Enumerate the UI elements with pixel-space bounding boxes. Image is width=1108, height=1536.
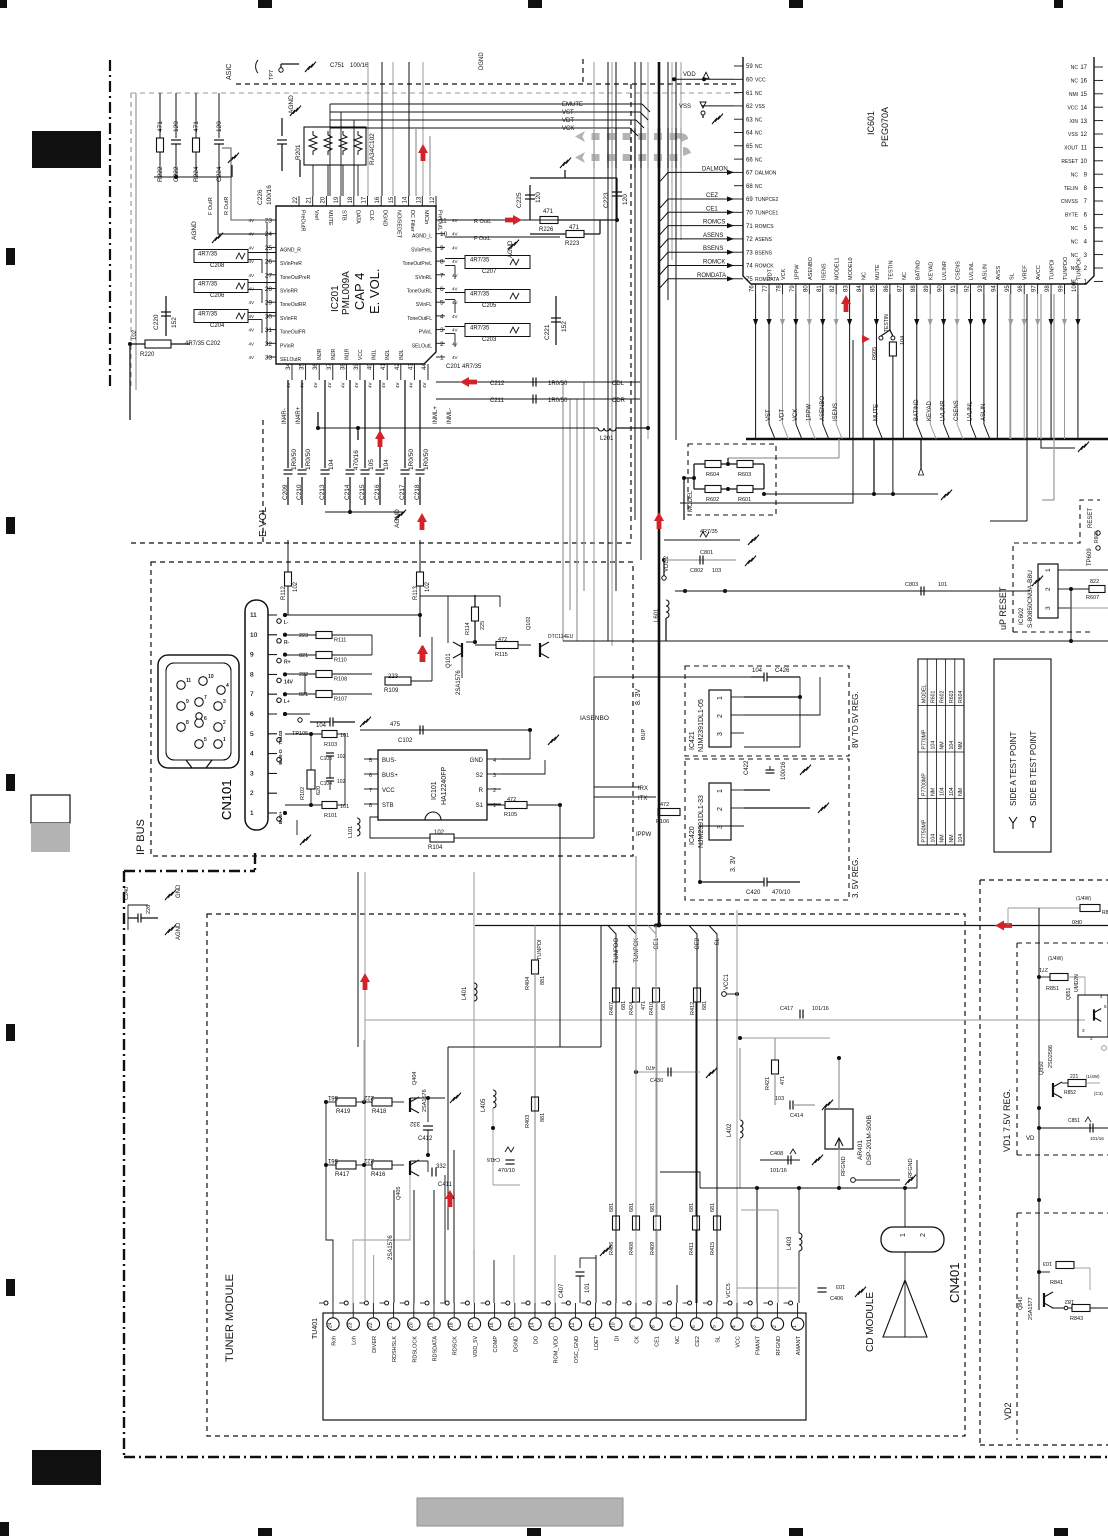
svg-text:7: 7 bbox=[204, 695, 207, 701]
svg-text:ROM_VDD: ROM_VDD bbox=[554, 1336, 560, 1364]
svg-text:63: 63 bbox=[746, 117, 753, 123]
svg-text:24: 24 bbox=[328, 1322, 334, 1328]
svg-text:561: 561 bbox=[327, 1094, 338, 1100]
svg-text:4V: 4V bbox=[248, 328, 254, 333]
svg-text:NC: NC bbox=[755, 64, 763, 70]
svg-text:LVLINR: LVLINR bbox=[942, 261, 948, 280]
svg-text:NOISEDET: NOISEDET bbox=[395, 210, 401, 239]
svg-text:4V: 4V bbox=[452, 314, 458, 319]
svg-text:R224: R224 bbox=[193, 166, 200, 182]
svg-text:LVLINL: LVLINL bbox=[967, 401, 973, 421]
svg-text:ASLIN: ASLIN bbox=[981, 404, 987, 421]
svg-text:ROMCS: ROMCS bbox=[703, 220, 725, 226]
svg-text:21: 21 bbox=[388, 1322, 394, 1328]
svg-text:2: 2 bbox=[250, 790, 254, 797]
svg-text:IN2L: IN2L bbox=[385, 349, 391, 360]
svg-text:DTC114EU: DTC114EU bbox=[548, 634, 574, 640]
svg-text:DIVER: DIVER bbox=[372, 1336, 378, 1353]
svg-text:120: 120 bbox=[173, 121, 180, 132]
svg-text:ASLIN: ASLIN bbox=[982, 264, 988, 280]
svg-text:38: 38 bbox=[340, 363, 346, 370]
svg-text:332: 332 bbox=[409, 1120, 420, 1126]
svg-text:DGND: DGND bbox=[382, 210, 388, 226]
svg-text:(1/4W): (1/4W) bbox=[1076, 896, 1091, 902]
svg-text:NC: NC bbox=[755, 131, 763, 137]
svg-text:21: 21 bbox=[307, 196, 313, 203]
svg-text:821: 821 bbox=[299, 692, 308, 698]
svg-text:10: 10 bbox=[250, 632, 258, 639]
svg-text:SVinRR: SVinRR bbox=[280, 289, 298, 295]
svg-text:C215: C215 bbox=[359, 484, 366, 500]
svg-text:8: 8 bbox=[250, 671, 254, 678]
svg-text:MODEL: MODEL bbox=[921, 684, 927, 703]
svg-text:CE1: CE1 bbox=[655, 1336, 661, 1347]
svg-text:C216: C216 bbox=[374, 484, 381, 500]
svg-text:ToneOutRL: ToneOutRL bbox=[407, 289, 433, 295]
svg-text:19: 19 bbox=[334, 196, 340, 203]
svg-text:104: 104 bbox=[949, 787, 955, 796]
svg-text:6: 6 bbox=[691, 1325, 697, 1328]
svg-text:35: 35 bbox=[300, 363, 306, 370]
svg-text:R605: R605 bbox=[872, 347, 878, 360]
svg-text:60: 60 bbox=[746, 78, 753, 84]
svg-text:14V: 14V bbox=[284, 679, 294, 685]
svg-text:4V: 4V bbox=[248, 273, 254, 278]
svg-text:LDET: LDET bbox=[594, 1335, 600, 1350]
svg-text:6: 6 bbox=[440, 286, 444, 293]
svg-text:101: 101 bbox=[585, 1282, 591, 1293]
svg-text:VCC: VCC bbox=[755, 78, 766, 84]
svg-text:44: 44 bbox=[422, 363, 428, 370]
svg-text:RDSHSLK: RDSHSLK bbox=[392, 1336, 398, 1362]
svg-text:DO: DO bbox=[534, 1335, 540, 1344]
svg-text:R104: R104 bbox=[428, 845, 443, 851]
svg-text:TP7: TP7 bbox=[269, 70, 275, 80]
svg-text:AGND: AGND bbox=[176, 922, 182, 940]
svg-text:24: 24 bbox=[265, 231, 273, 238]
svg-text:IPPW: IPPW bbox=[636, 832, 652, 838]
svg-text:16: 16 bbox=[1080, 79, 1087, 85]
svg-text:4V: 4V bbox=[452, 287, 458, 292]
svg-text:42: 42 bbox=[395, 363, 401, 370]
svg-text:1: 1 bbox=[440, 355, 444, 362]
svg-text:61: 61 bbox=[746, 91, 753, 97]
svg-text:NC: NC bbox=[1071, 65, 1079, 71]
svg-text:RDSDATA: RDSDATA bbox=[433, 1336, 439, 1362]
svg-text:R608: R608 bbox=[1094, 531, 1100, 543]
svg-text:14: 14 bbox=[1080, 105, 1087, 111]
svg-text:69: 69 bbox=[746, 197, 753, 203]
svg-text:33: 33 bbox=[265, 355, 273, 362]
svg-text:VCK: VCK bbox=[781, 268, 787, 280]
svg-text:101/16: 101/16 bbox=[770, 1168, 787, 1174]
svg-text:C851: C851 bbox=[1068, 1118, 1080, 1124]
svg-text:81: 81 bbox=[817, 285, 823, 292]
svg-text:R201: R201 bbox=[295, 144, 302, 160]
svg-text:TUNPCK: TUNPCK bbox=[634, 938, 640, 963]
svg-text:R418: R418 bbox=[372, 1109, 387, 1115]
svg-text:NM: NM bbox=[958, 788, 964, 796]
svg-text:75: 75 bbox=[746, 277, 753, 283]
svg-text:RA34C102: RA34C102 bbox=[369, 133, 376, 165]
svg-text:STB: STB bbox=[341, 210, 347, 221]
svg-text:R: R bbox=[479, 788, 484, 794]
svg-text:104: 104 bbox=[752, 668, 763, 674]
svg-text:17: 17 bbox=[362, 196, 368, 203]
svg-text:R8: R8 bbox=[1102, 910, 1108, 916]
svg-text:3: 3 bbox=[717, 732, 724, 736]
svg-text:DSP-201M-S00B: DSP-201M-S00B bbox=[866, 1115, 873, 1165]
svg-text:881: 881 bbox=[540, 976, 546, 985]
svg-text:R101: R101 bbox=[324, 813, 337, 819]
svg-text:TUNER MODULE: TUNER MODULE bbox=[224, 1274, 236, 1362]
svg-text:475: 475 bbox=[390, 722, 401, 728]
svg-text:P770MP: P770MP bbox=[921, 729, 927, 749]
svg-text:PVinR: PVinR bbox=[280, 343, 294, 349]
svg-text:223: 223 bbox=[299, 633, 308, 639]
svg-text:7: 7 bbox=[671, 1325, 677, 1328]
svg-text:471: 471 bbox=[193, 121, 200, 132]
svg-text:VCC: VCC bbox=[358, 349, 364, 360]
svg-text:R109: R109 bbox=[384, 688, 399, 694]
svg-text:65: 65 bbox=[746, 144, 753, 150]
svg-text:98: 98 bbox=[1045, 285, 1051, 292]
svg-text:IN4R+: IN4R+ bbox=[296, 406, 302, 424]
svg-text:MODEL: MODEL bbox=[688, 490, 694, 512]
svg-text:20: 20 bbox=[408, 1322, 414, 1328]
svg-text:73: 73 bbox=[746, 250, 753, 256]
svg-text:152: 152 bbox=[561, 321, 568, 332]
svg-text:30: 30 bbox=[265, 313, 273, 320]
svg-text:ToneOutPreR: ToneOutPreR bbox=[280, 275, 311, 281]
svg-text:226: 226 bbox=[146, 905, 152, 914]
svg-text:DGND: DGND bbox=[479, 52, 485, 70]
svg-text:10: 10 bbox=[1080, 159, 1087, 165]
svg-text:104: 104 bbox=[940, 787, 946, 796]
svg-text:RFGND: RFGND bbox=[776, 1336, 782, 1356]
svg-text:3. 3V: 3. 3V bbox=[730, 855, 737, 872]
svg-text:IN4R-: IN4R- bbox=[282, 408, 288, 424]
svg-text:C208: C208 bbox=[210, 263, 225, 269]
svg-text:5: 5 bbox=[440, 300, 444, 307]
svg-text:16: 16 bbox=[375, 196, 381, 203]
svg-text:NC: NC bbox=[1071, 239, 1079, 245]
svg-text:104: 104 bbox=[958, 834, 964, 843]
svg-text:681: 681 bbox=[689, 1203, 695, 1212]
svg-text:1R0/50: 1R0/50 bbox=[291, 449, 298, 470]
svg-text:L101: L101 bbox=[348, 826, 354, 838]
svg-text:4V: 4V bbox=[248, 300, 254, 305]
svg-text:222: 222 bbox=[299, 672, 308, 678]
svg-text:ToneOutPreL: ToneOutPreL bbox=[403, 261, 433, 267]
svg-text:R417: R417 bbox=[335, 1172, 350, 1178]
svg-text:ASENS: ASENS bbox=[755, 237, 773, 243]
svg-text:182: 182 bbox=[1065, 1298, 1074, 1304]
svg-text:IN1L: IN1L bbox=[372, 349, 378, 360]
svg-text:225: 225 bbox=[480, 621, 486, 630]
svg-text:VSS: VSS bbox=[755, 104, 766, 110]
svg-text:100: 100 bbox=[1072, 281, 1078, 292]
svg-text:BUS-O: BUS-O bbox=[278, 749, 284, 764]
svg-text:LVLINR: LVLINR bbox=[941, 400, 947, 421]
svg-text:105: 105 bbox=[368, 459, 375, 470]
svg-text:74: 74 bbox=[746, 264, 753, 270]
svg-text:INML-: INML- bbox=[447, 408, 453, 424]
svg-text:HA12240FP: HA12240FP bbox=[441, 767, 448, 805]
svg-text:77: 77 bbox=[763, 285, 769, 292]
svg-text:R102: R102 bbox=[300, 787, 306, 800]
svg-text:472: 472 bbox=[507, 797, 516, 803]
svg-text:4V: 4V bbox=[381, 382, 386, 388]
svg-text:C205: C205 bbox=[482, 303, 497, 309]
svg-text:C406: C406 bbox=[830, 1296, 843, 1302]
svg-text:5: 5 bbox=[204, 737, 207, 743]
svg-text:1PPW: 1PPW bbox=[794, 264, 800, 280]
svg-text:104: 104 bbox=[931, 741, 937, 750]
svg-text:10: 10 bbox=[610, 1322, 616, 1328]
svg-text:C213: C213 bbox=[319, 484, 326, 500]
svg-text:VCC5: VCC5 bbox=[726, 1283, 732, 1298]
svg-text:VST: VST bbox=[766, 409, 772, 421]
svg-text:RESET: RESET bbox=[1088, 508, 1094, 528]
svg-text:RFGND: RFGND bbox=[908, 1158, 914, 1178]
svg-text:CE2: CE2 bbox=[695, 1336, 701, 1347]
svg-text:18: 18 bbox=[348, 196, 354, 203]
svg-text:22: 22 bbox=[368, 1322, 374, 1328]
svg-text:TUNPCK: TUNPCK bbox=[1076, 257, 1082, 280]
svg-text:IP BUS: IP BUS bbox=[135, 819, 147, 855]
svg-text:102: 102 bbox=[337, 779, 346, 785]
svg-text:COMP: COMP bbox=[493, 1336, 499, 1353]
svg-text:IN3R: IN3R bbox=[317, 348, 323, 360]
svg-text:F OutR: F OutR bbox=[208, 197, 214, 215]
svg-text:TP103: TP103 bbox=[278, 730, 284, 744]
svg-text:DALMON: DALMON bbox=[702, 166, 728, 172]
svg-text:40: 40 bbox=[368, 363, 374, 370]
svg-text:R404: R404 bbox=[525, 977, 531, 990]
svg-text:C207: C207 bbox=[482, 269, 497, 275]
svg-text:S-80850CNUA-B8U: S-80850CNUA-B8U bbox=[1027, 570, 1034, 628]
svg-text:R409: R409 bbox=[650, 1242, 656, 1255]
svg-text:BSENS: BSENS bbox=[703, 246, 723, 252]
svg-text:221: 221 bbox=[1070, 1074, 1079, 1080]
svg-text:C102: C102 bbox=[398, 738, 413, 744]
svg-text:R607: R607 bbox=[1086, 595, 1099, 601]
svg-text:R106: R106 bbox=[656, 819, 669, 825]
svg-text:Rch: Rch bbox=[332, 1336, 338, 1346]
svg-text:3: 3 bbox=[250, 770, 254, 777]
svg-text:72: 72 bbox=[746, 237, 753, 243]
svg-text:SL: SL bbox=[715, 1336, 721, 1343]
svg-text:68: 68 bbox=[746, 184, 753, 190]
svg-text:BUS+: BUS+ bbox=[382, 773, 398, 779]
svg-text:GND: GND bbox=[470, 758, 484, 764]
svg-text:P7700MP: P7700MP bbox=[921, 773, 927, 796]
svg-text:TUNPDI: TUNPDI bbox=[1050, 259, 1056, 280]
svg-text:AGND: AGND bbox=[191, 221, 198, 240]
svg-text:C206: C206 bbox=[210, 293, 225, 299]
svg-text:13: 13 bbox=[550, 1322, 556, 1328]
svg-text:472: 472 bbox=[660, 802, 669, 808]
svg-text:C203: C203 bbox=[482, 337, 497, 343]
svg-text:L401: L401 bbox=[462, 986, 468, 1000]
svg-text:PML009A: PML009A bbox=[341, 271, 352, 315]
svg-text:R419: R419 bbox=[336, 1109, 351, 1115]
svg-text:1R0/50: 1R0/50 bbox=[423, 449, 430, 470]
svg-text:1: 1 bbox=[900, 1233, 907, 1237]
svg-text:104: 104 bbox=[316, 723, 327, 729]
svg-text:L-: L- bbox=[284, 620, 289, 626]
svg-text:32: 32 bbox=[265, 341, 273, 348]
svg-text:26: 26 bbox=[265, 259, 273, 266]
svg-text:DC Filter: DC Filter bbox=[409, 210, 415, 232]
svg-text:S2: S2 bbox=[476, 773, 484, 779]
svg-text:VST: VST bbox=[562, 110, 574, 116]
svg-text:NC: NC bbox=[755, 157, 763, 163]
svg-text:223: 223 bbox=[388, 674, 399, 680]
svg-text:23: 23 bbox=[348, 1322, 354, 1328]
svg-text:101: 101 bbox=[938, 582, 947, 588]
svg-text:C240: C240 bbox=[124, 887, 130, 900]
svg-text:L405: L405 bbox=[481, 1098, 487, 1112]
svg-text:DALMON: DALMON bbox=[755, 171, 777, 177]
svg-text:2: 2 bbox=[920, 1233, 927, 1237]
svg-text:NM: NM bbox=[940, 834, 946, 842]
svg-text:R410: R410 bbox=[649, 1002, 655, 1015]
svg-text:471: 471 bbox=[641, 1001, 647, 1010]
svg-text:8: 8 bbox=[186, 720, 189, 726]
svg-text:BATIND: BATIND bbox=[914, 399, 920, 421]
svg-text:R105: R105 bbox=[504, 812, 517, 818]
svg-text:C225: C225 bbox=[516, 192, 523, 208]
svg-text:23: 23 bbox=[265, 218, 273, 225]
svg-text:470: 470 bbox=[646, 1064, 655, 1070]
svg-text:MUTE: MUTE bbox=[327, 210, 333, 226]
svg-text:VCC1: VCC1 bbox=[724, 973, 730, 990]
svg-text:3. 5V REG.: 3. 5V REG. bbox=[851, 858, 860, 898]
svg-text:R226: R226 bbox=[539, 227, 554, 233]
svg-text:4: 4 bbox=[226, 683, 229, 689]
svg-text:29: 29 bbox=[265, 300, 273, 307]
svg-text:120: 120 bbox=[622, 194, 629, 205]
svg-text:ISENS: ISENS bbox=[833, 403, 839, 421]
svg-text:MUTE: MUTE bbox=[873, 404, 879, 421]
svg-text:102: 102 bbox=[425, 581, 431, 592]
svg-text:27: 27 bbox=[265, 272, 273, 279]
svg-text:470/10: 470/10 bbox=[498, 1168, 515, 1174]
svg-text:R408: R408 bbox=[629, 1242, 635, 1255]
svg-text:4V: 4V bbox=[248, 314, 254, 319]
svg-text:4: 4 bbox=[732, 1325, 738, 1328]
svg-text:Q404: Q404 bbox=[412, 1072, 418, 1085]
svg-text:470/10: 470/10 bbox=[772, 890, 791, 896]
svg-text:89: 89 bbox=[924, 285, 930, 292]
svg-text:ToneOutRR: ToneOutRR bbox=[280, 302, 307, 308]
svg-text:1R0/50: 1R0/50 bbox=[305, 449, 312, 470]
svg-text:100/16: 100/16 bbox=[781, 761, 787, 780]
svg-text:NM: NM bbox=[949, 834, 955, 842]
svg-text:152: 152 bbox=[171, 317, 178, 328]
svg-text:Q405: Q405 bbox=[396, 1187, 402, 1200]
svg-text:CSENS: CSENS bbox=[954, 400, 960, 421]
svg-text:80: 80 bbox=[803, 285, 809, 292]
svg-text:VCC: VCC bbox=[1067, 105, 1078, 111]
svg-text:4V: 4V bbox=[248, 355, 254, 360]
svg-text:R602: R602 bbox=[940, 690, 946, 703]
svg-text:C212: C212 bbox=[490, 381, 505, 387]
svg-text:SIDE B TEST POINT: SIDE B TEST POINT bbox=[1029, 731, 1038, 806]
svg-text:471: 471 bbox=[780, 1076, 786, 1085]
svg-text:15: 15 bbox=[389, 196, 395, 203]
svg-text:10: 10 bbox=[208, 674, 214, 680]
svg-text:RDSCK: RDSCK bbox=[453, 1336, 459, 1356]
svg-text:R852: R852 bbox=[1064, 1090, 1076, 1096]
svg-text:MODEL0: MODEL0 bbox=[848, 257, 854, 280]
svg-text:100/16: 100/16 bbox=[266, 185, 273, 205]
svg-text:78: 78 bbox=[776, 285, 782, 292]
svg-text:2SD2586: 2SD2586 bbox=[1048, 1045, 1054, 1068]
svg-text:4V: 4V bbox=[408, 382, 413, 388]
svg-text:14: 14 bbox=[403, 196, 409, 203]
svg-text:BATIND: BATIND bbox=[915, 260, 921, 280]
svg-text:C211: C211 bbox=[490, 398, 505, 404]
svg-text:4V: 4V bbox=[354, 382, 359, 388]
svg-text:PVinL: PVinL bbox=[419, 330, 432, 336]
svg-text:NC: NC bbox=[1071, 172, 1079, 178]
svg-text:C220: C220 bbox=[153, 314, 160, 330]
svg-text:R424: R424 bbox=[629, 1002, 635, 1015]
svg-text:4V: 4V bbox=[340, 382, 345, 388]
svg-text:18: 18 bbox=[449, 1322, 455, 1328]
svg-text:AMANT: AMANT bbox=[796, 1335, 802, 1355]
svg-text:DGND: DGND bbox=[513, 1336, 519, 1352]
svg-text:67: 67 bbox=[746, 171, 753, 177]
svg-text:IN3L: IN3L bbox=[399, 349, 405, 360]
svg-text:MODEL1: MODEL1 bbox=[835, 257, 841, 280]
svg-text:34: 34 bbox=[286, 363, 292, 370]
svg-text:4R7/35: 4R7/35 bbox=[198, 282, 218, 288]
svg-text:104: 104 bbox=[328, 459, 335, 470]
svg-text:8. 3V: 8. 3V bbox=[635, 688, 642, 705]
svg-text:1: 1 bbox=[717, 789, 724, 793]
svg-text:CE1: CE1 bbox=[654, 937, 660, 949]
svg-text:37: 37 bbox=[327, 363, 333, 370]
svg-text:92: 92 bbox=[964, 285, 970, 292]
svg-text:SVinFL: SVinFL bbox=[416, 302, 433, 308]
svg-text:2: 2 bbox=[223, 720, 226, 726]
svg-text:CAP 4: CAP 4 bbox=[352, 273, 367, 310]
svg-text:NC: NC bbox=[675, 1336, 681, 1344]
svg-text:UMD2N: UMD2N bbox=[1074, 974, 1080, 992]
svg-text:87: 87 bbox=[897, 285, 903, 292]
svg-text:EMUTE: EMUTE bbox=[562, 102, 583, 108]
svg-text:1: 1 bbox=[250, 810, 254, 817]
svg-text:VD2: VD2 bbox=[1003, 1402, 1013, 1420]
svg-text:4V: 4V bbox=[313, 382, 318, 388]
svg-text:TESTIN: TESTIN bbox=[888, 260, 894, 280]
svg-text:ASENS: ASENS bbox=[703, 233, 723, 239]
svg-text:17: 17 bbox=[469, 1322, 475, 1328]
svg-text:R103: R103 bbox=[324, 742, 337, 748]
svg-text:C209: C209 bbox=[282, 484, 289, 500]
svg-text:681: 681 bbox=[609, 1203, 615, 1212]
svg-text:SVinRL: SVinRL bbox=[415, 275, 432, 281]
svg-text:79: 79 bbox=[790, 285, 796, 292]
svg-text:4V: 4V bbox=[452, 355, 458, 360]
svg-text:GND: GND bbox=[176, 884, 182, 898]
svg-text:RDSLOCK: RDSLOCK bbox=[412, 1336, 418, 1363]
svg-text:R110: R110 bbox=[334, 658, 347, 664]
